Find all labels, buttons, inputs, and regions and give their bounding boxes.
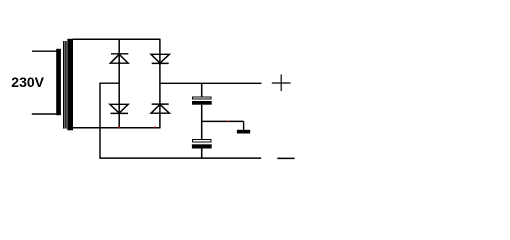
svg-text:230V: 230V: [11, 74, 44, 90]
transformer T1 core line 2: [65, 41, 67, 129]
wire top AC rail: [73, 38, 161, 40]
junction dot red middle: [155, 127, 156, 128]
capacitor C2 negative plate (solid): [192, 144, 212, 148]
capacitor C1 positive plate (hollow): [193, 97, 212, 99]
wire ground branch horizontal: [202, 120, 244, 122]
capacitor C2 positive plate (hollow): [192, 140, 211, 143]
wire right bridge branch: [159, 39, 161, 127]
wire bottom AC rail: [73, 127, 161, 129]
diode D4 lower-right (cathode up): [151, 104, 169, 113]
wire primary bottom lead: [32, 113, 57, 115]
wire left vertical drop to minus rail: [99, 83, 101, 159]
diode D2 lower-left (cathode down): [110, 104, 128, 113]
transformer T1 secondary winding bar: [67, 39, 73, 131]
wire minus rail: [99, 157, 261, 159]
node plus terminal: [272, 75, 291, 92]
wire capacitor middle lead: [201, 105, 203, 140]
capacitor C1 negative plate (solid): [192, 101, 212, 105]
wire capacitor C2 bottom lead: [201, 149, 203, 159]
node minus terminal: [277, 157, 294, 159]
junction dot red left: [118, 127, 119, 128]
junction dot red ground wire: [227, 121, 228, 122]
diode D1 upper-left (cathode up): [110, 54, 128, 63]
ground symbol bar: [237, 130, 250, 134]
wire plus rail from right branch midpoint: [160, 82, 262, 84]
wire capacitor C1 top lead: [201, 83, 203, 97]
wire ground branch vertical: [243, 121, 245, 129]
diode D3 upper-right (cathode down): [151, 54, 169, 63]
wire negative tap from left branch midpoint: [100, 82, 119, 84]
wire left bridge branch: [118, 39, 120, 127]
transformer T1 core line 1: [63, 41, 65, 129]
transformer T1 primary winding bar: [56, 49, 61, 115]
wire primary top lead: [32, 50, 57, 52]
